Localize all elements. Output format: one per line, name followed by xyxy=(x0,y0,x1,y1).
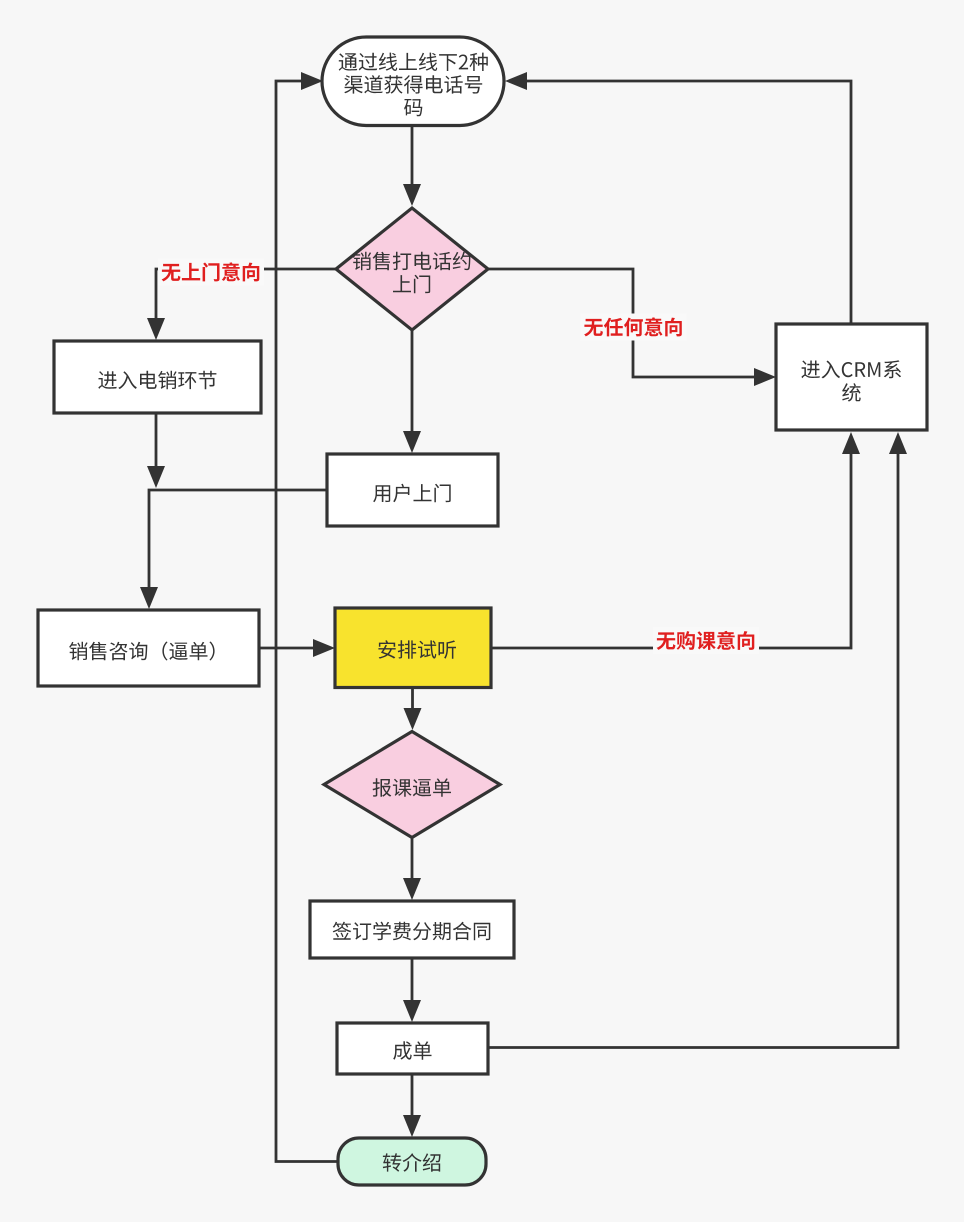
label: no intention at all (red) xyxy=(581,314,687,341)
wire: deal box down to referral terminal xyxy=(403,1074,421,1137)
process: enter telesales stage xyxy=(54,341,261,413)
terminator: referral (green) xyxy=(338,1138,486,1185)
wire: contract box down to deal box xyxy=(403,958,421,1022)
wire: decision D2 down to contract box xyxy=(403,838,421,901)
label: no purchase intention (red) xyxy=(653,627,759,654)
wire: visit box left to consult box xyxy=(140,490,327,609)
process: arrange trial lesson (yellow) xyxy=(335,608,491,688)
wire: decision D1 right branch to CRM box xyxy=(488,269,776,386)
decision D2: push to enroll xyxy=(324,732,500,838)
wire: decision D1 left branch to telesales box xyxy=(147,269,336,340)
process: deal closed xyxy=(337,1023,488,1074)
process: sign tuition installment contract xyxy=(310,901,514,958)
decision D1: sales calls to arrange visit xyxy=(336,208,488,330)
process: enter CRM system xyxy=(776,324,927,430)
wire: consult box right to trial box xyxy=(259,639,335,657)
terminator: get phone numbers via 2 channels xyxy=(322,37,504,126)
wire: deal box right up to CRM bottom xyxy=(488,432,907,1048)
wire: trial box right up to CRM bottom xyxy=(491,432,860,648)
wire: trial box down to decision D2 xyxy=(404,688,422,731)
wire: referral terminal left up to start terminal xyxy=(276,72,338,1162)
wire: CRM top up left to start terminal xyxy=(505,72,851,324)
wire: start terminal to decision D1 xyxy=(403,126,421,207)
label: no visit intention (red) xyxy=(158,259,264,286)
process: user visits xyxy=(327,454,498,526)
process: sales consulting (closing) xyxy=(38,610,259,686)
wire: decision D1 down to visit box xyxy=(403,330,421,453)
wire: telesales box down to junction xyxy=(147,413,165,488)
